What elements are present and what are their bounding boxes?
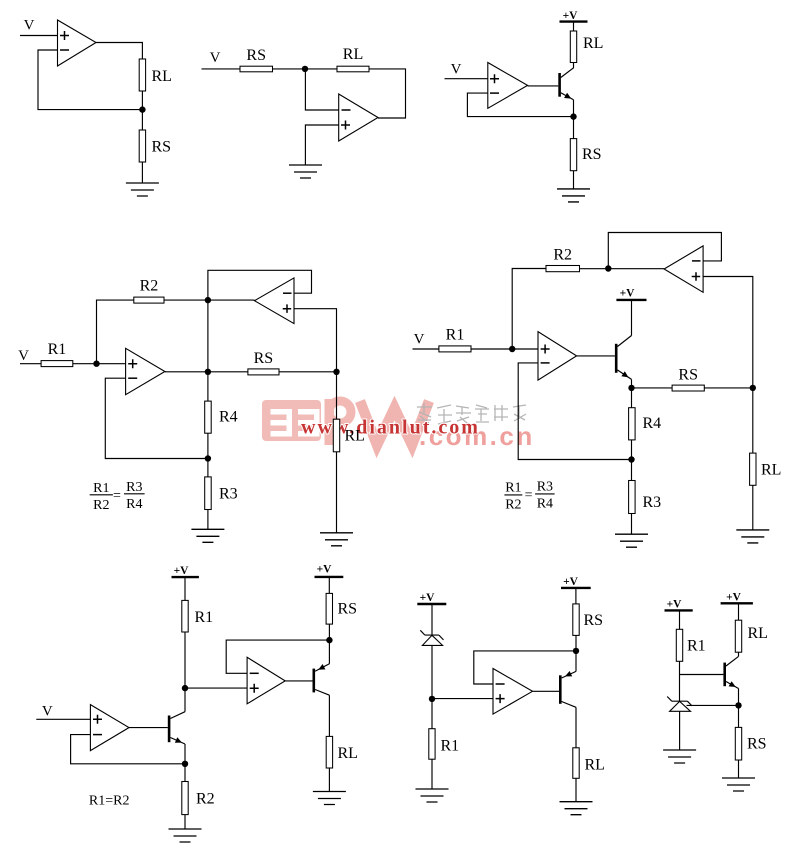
svg-text:R3: R3 [643, 494, 662, 511]
wire RS to RL [273, 68, 338, 70]
resistor R4 [205, 401, 212, 433]
A2 minus input marking [283, 292, 292, 294]
svg-text:+V: +V [726, 592, 742, 604]
resistor RS [735, 727, 741, 760]
resistor R2 [546, 266, 580, 272]
wire R3 to ground [631, 514, 633, 535]
svg-text:R2: R2 [505, 497, 521, 512]
wire node to node vertical [207, 300, 209, 372]
resistor RL [573, 748, 579, 779]
ground [313, 792, 346, 805]
A2 plus input marking [283, 304, 292, 313]
resistor R1 [676, 629, 682, 661]
wire right node down to RL [752, 388, 754, 453]
svg-text:R3: R3 [219, 486, 238, 503]
wire RL to RS [141, 91, 143, 130]
wire B1 output to Q2 base [577, 355, 615, 357]
svg-text:RL: RL [338, 745, 358, 762]
wire A1 output to RS [165, 371, 248, 373]
resistor RS [573, 604, 579, 636]
op-amp A2 [255, 278, 295, 324]
wire +V to RL [573, 22, 575, 31]
svg-text:RL: RL [345, 428, 365, 445]
wire V input to op-amp U1 [20, 35, 58, 37]
node junction [302, 66, 308, 72]
node junction [628, 385, 634, 391]
ground [557, 189, 590, 202]
wire feedback to op-amp C3 minus [474, 651, 576, 684]
wire B1 minus feedback [518, 363, 631, 460]
wire V input to RS [202, 68, 241, 70]
resistor R3 [205, 477, 212, 510]
watermark EEPW logo block with two stencil E letters [262, 400, 321, 441]
svg-text:RS: RS [678, 367, 698, 384]
A1 plus input marking [128, 359, 137, 368]
transistor Q6 [725, 656, 739, 688]
svg-text:=: = [113, 488, 121, 503]
wire RS to right node [704, 387, 753, 389]
C3 plus input marking [496, 694, 505, 703]
wire +V to zener D1 [431, 604, 433, 635]
resistor R1 [182, 600, 188, 632]
svg-text:V: V [414, 332, 425, 348]
wire Q2 emitter to R4 [631, 379, 633, 407]
wire V input to R1 [413, 348, 439, 350]
node junction [333, 369, 339, 375]
svg-text:RS: RS [246, 47, 266, 64]
wire RL to ground [575, 778, 577, 801]
svg-text:R4: R4 [126, 497, 142, 512]
wire Q4 collector to RL [328, 695, 330, 736]
op-amp C3 [493, 669, 533, 715]
svg-text:R1: R1 [446, 327, 465, 344]
B1 plus input marking [541, 345, 550, 354]
+V supply [315, 564, 344, 577]
wire RL to Q1 collector [561, 63, 574, 78]
U3 minus input marking [490, 92, 499, 94]
wire feedback to op-amp C2 minus [226, 640, 329, 673]
wire C1 minus feedback [71, 735, 185, 764]
node junction [139, 106, 145, 112]
wire C1 output to Q3 base [129, 727, 168, 729]
U2 minus input marking [342, 109, 351, 111]
wire +V to RS [575, 588, 577, 604]
resistor RL [337, 66, 369, 72]
svg-text:R3: R3 [126, 480, 142, 495]
wire Q1 emitter to RS [573, 100, 575, 139]
wire node to op-amp C2 plus [185, 687, 247, 689]
resistor RS [248, 369, 279, 375]
svg-text:R1: R1 [441, 738, 460, 755]
op-amp U1 [58, 20, 97, 66]
svg-text:R2: R2 [196, 791, 215, 808]
svg-text:R4: R4 [219, 409, 238, 426]
ground [722, 778, 755, 791]
wire node to RS [632, 387, 673, 389]
B2 plus input marking [692, 272, 701, 281]
wire R2 to ground [184, 815, 186, 829]
ground [320, 533, 353, 546]
ground [289, 165, 322, 178]
wire Q5 collector to RL [575, 707, 577, 748]
svg-text:R1: R1 [505, 480, 521, 495]
resistor RS [326, 593, 332, 624]
svg-text:RS: RS [338, 601, 358, 618]
wire R1 to op-amp A1 plus [73, 363, 126, 365]
node junction [326, 637, 332, 643]
wire C3 output to Q5 base [533, 690, 560, 692]
wire RL to op-amp U2 output [369, 69, 406, 118]
wire Q3 collector to node [184, 688, 186, 712]
svg-text:RS: RS [152, 139, 172, 156]
svg-text:+V: +V [620, 288, 636, 300]
wire top feedback to A2 minus [208, 270, 312, 300]
wire R2 to op-amp A2 apex [164, 299, 255, 301]
wire R1 to node [184, 632, 186, 688]
wire RS to Q5 emitter [575, 635, 577, 671]
wire R1 to op-amp B1 plus [471, 348, 538, 350]
wire feedback to U3 minus [467, 93, 573, 117]
svg-text:+V: +V [667, 599, 683, 611]
node junction [628, 456, 634, 462]
wire U2 plus to ground [305, 125, 338, 165]
op-amp U3 [488, 63, 528, 109]
wire RL to ground [328, 768, 330, 792]
svg-text:RL: RL [585, 757, 605, 774]
node junction [182, 685, 188, 691]
ground [169, 829, 202, 842]
transistor Q1 [560, 73, 574, 100]
resistor RS [570, 139, 576, 171]
svg-text:R1: R1 [195, 609, 214, 626]
svg-text:R2: R2 [93, 498, 109, 513]
C2 minus input marking [250, 672, 259, 674]
wire +V to RS [328, 577, 330, 594]
svg-text:+V: +V [317, 564, 333, 576]
wire R3 to ground [207, 510, 209, 530]
svg-text:V: V [210, 50, 221, 66]
C2 plus input marking [250, 684, 259, 693]
resistor RS [672, 385, 704, 391]
wire V input to R1 [20, 363, 41, 365]
svg-text:R3: R3 [537, 479, 553, 494]
wire node to op-amp C3 plus [432, 698, 493, 700]
svg-text:R4: R4 [643, 415, 662, 432]
U1 minus input marking [60, 49, 69, 51]
wire right node down to RL [336, 372, 338, 419]
wire node up to R2 [97, 300, 134, 364]
node junction [429, 696, 435, 702]
resistor RL [570, 31, 576, 63]
svg-text:R2: R2 [553, 247, 572, 264]
wire V input to U3 plus [445, 78, 488, 80]
wire RS to ground [738, 760, 740, 778]
watermark letter W [360, 401, 429, 445]
svg-text:R1=R2: R1=R2 [89, 794, 130, 809]
wire node down to R4 [207, 372, 209, 401]
ground [615, 534, 648, 547]
svg-text:R1: R1 [93, 481, 109, 496]
+V supply right [721, 592, 753, 604]
U3 plus input marking [490, 74, 499, 83]
node junction [605, 265, 611, 271]
U1 plus input marking [60, 31, 69, 40]
resistor RL [750, 453, 756, 485]
resistor R1 [439, 346, 471, 352]
wire R4 to R3 [207, 433, 209, 477]
svg-text:V: V [24, 18, 35, 34]
+V supply left [417, 592, 446, 604]
node junction [93, 361, 99, 367]
resistor R1 [41, 361, 73, 367]
svg-text:www.dianlut.com: www.dianlut.com [301, 417, 480, 439]
wire RL to ground [336, 452, 338, 533]
op-amp A1 [126, 348, 165, 394]
svg-text:R1: R1 [48, 341, 67, 358]
svg-text:V: V [451, 62, 462, 78]
+V supply [560, 10, 588, 22]
svg-text:+V: +V [174, 565, 190, 577]
+V supply [616, 288, 646, 300]
node junction [573, 648, 579, 654]
C1 minus input marking [93, 734, 102, 736]
svg-text:=: = [525, 488, 533, 503]
wire RS to Q4 emitter [328, 624, 330, 664]
formula R1/R2 = R3/R4 [504, 479, 554, 512]
wire B2 plus to RS right node [703, 277, 753, 388]
wire top feedback to B2 minus [608, 233, 721, 269]
svg-text:R1: R1 [687, 638, 706, 655]
node junction [205, 455, 211, 461]
+V supply left [665, 599, 693, 611]
svg-text:RS: RS [254, 350, 274, 367]
wire RL to Q6 collector [738, 652, 740, 656]
wire +V to R1 [679, 610, 681, 629]
wire U1 output to RL [96, 43, 142, 60]
zener diode D1 [420, 630, 443, 645]
svg-text:R4: R4 [537, 496, 553, 511]
wire V input to op-amp C1 plus [36, 718, 90, 720]
ground [663, 750, 696, 763]
ground [191, 529, 224, 542]
node junction [205, 369, 211, 375]
ground [126, 183, 159, 196]
wire RS to ground [141, 162, 143, 183]
wire R2 to op-amp B2 apex [580, 268, 665, 270]
wire R1 to ground [431, 759, 433, 789]
resistor R2 [182, 782, 188, 815]
U2 plus input marking [341, 121, 350, 130]
ground [416, 789, 449, 802]
op-amp B2 [664, 246, 703, 292]
wire R4 to R3 [631, 440, 633, 481]
resistor RL [139, 59, 145, 91]
svg-text:RL: RL [583, 35, 603, 52]
wire C2 output to Q4 base [285, 680, 312, 682]
resistor R4 [629, 408, 636, 440]
wire A2 plus to RS right node [294, 309, 337, 372]
svg-text:RS: RS [584, 612, 604, 629]
node junction [735, 702, 741, 708]
B1 minus input marking [541, 362, 550, 364]
resistor RL [333, 419, 339, 452]
svg-text:RL: RL [748, 625, 768, 642]
wire +V to R1 [184, 577, 186, 600]
wire RL to ground [752, 485, 754, 530]
node junction [205, 297, 211, 303]
resistor RS [139, 130, 145, 162]
node junction [509, 346, 515, 352]
B2 minus input marking [692, 260, 701, 262]
svg-text:+V: +V [420, 592, 436, 604]
node junction [182, 761, 188, 767]
node junction [750, 385, 756, 391]
svg-text:RS: RS [747, 736, 767, 753]
wire feedback to U1 minus [38, 50, 142, 110]
ground [560, 802, 593, 815]
svg-text:+V: +V [563, 10, 579, 22]
wire RS to right node [279, 371, 337, 373]
wire node to U2 minus [305, 69, 338, 110]
wire R1 to zener D2 [679, 661, 681, 701]
resistor R2 [134, 297, 164, 303]
+V supply [172, 565, 199, 577]
wire Q1 base to op-amp U3 [528, 85, 559, 87]
svg-text:RL: RL [152, 68, 172, 85]
wire +V to RL [738, 603, 740, 620]
transistor Q4 [314, 664, 330, 695]
op-amp C2 [247, 657, 285, 704]
C1 plus input marking [93, 715, 102, 724]
+V supply right [561, 576, 591, 588]
wire +V to Q2 collector [631, 300, 633, 336]
C3 minus input marking [496, 683, 505, 685]
resistor RL [735, 620, 741, 652]
svg-text:V: V [18, 348, 29, 364]
wire node to zener anode [687, 704, 739, 706]
svg-text:+V: +V [563, 576, 579, 588]
zener diode D2 [667, 697, 692, 712]
wire base junction to Q6 base [680, 674, 724, 676]
svg-text:R2: R2 [140, 278, 159, 295]
wire D2 to ground [679, 711, 681, 750]
node junction [570, 113, 576, 119]
ground [736, 530, 769, 543]
wire RS to ground [573, 171, 575, 189]
wire Q3 emitter to R2 [184, 744, 186, 782]
op-amp U2 [339, 94, 378, 141]
watermark letter P [325, 399, 352, 445]
watermark grey chinese characters [417, 403, 526, 424]
svg-text:RL: RL [761, 462, 781, 479]
op-amp B1 [538, 332, 577, 381]
transistor Q2 [616, 336, 631, 380]
svg-text:RL: RL [343, 46, 363, 63]
svg-text:RS: RS [582, 146, 602, 163]
resistor R3 [629, 481, 636, 514]
transistor Q5 [560, 671, 576, 707]
wire A1 minus feedback [105, 378, 208, 458]
wire Q6 emitter to RS [738, 689, 740, 728]
wire node up to R2 [512, 269, 546, 350]
transistor Q3 [169, 712, 185, 744]
formula R1/R2 = R3/R4 [90, 480, 145, 513]
resistor R1 [429, 729, 435, 760]
svg-text:V: V [42, 704, 53, 720]
resistor RS [240, 66, 273, 72]
wire D1 to R1 [431, 645, 433, 728]
op-amp C1 [90, 705, 129, 751]
A1 minus input marking [128, 377, 137, 379]
resistor RL [326, 736, 332, 768]
